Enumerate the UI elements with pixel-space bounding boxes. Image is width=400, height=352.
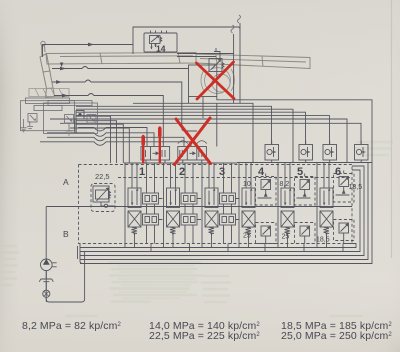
wire: [47, 137, 184, 146]
svg-text:2: 2: [179, 166, 185, 178]
pilot supply unit box: [144, 33, 177, 52]
red X over pilot valve 3: [175, 118, 211, 165]
gauge box: [75, 111, 84, 134]
wire: [70, 128, 129, 163]
wire: [40, 142, 191, 147]
svg-text:8,2 MPa = 82 kp/cm2: 8,2 MPa = 82 kp/cm2: [22, 320, 121, 332]
relief valve 22,5: [85, 184, 116, 212]
pilot valve box above section 3 (crossed): [178, 141, 207, 163]
wire bank top rail: [124, 162, 372, 165]
svg-text:25,0 MPa = 250 kp/cm2: 25,0 MPa = 250 kp/cm2: [281, 330, 392, 342]
wire arrow down: [60, 63, 64, 68]
wire top-left feed: [133, 27, 240, 103]
wire motor risers: [234, 23, 240, 103]
section 4 spring: [246, 227, 252, 234]
svg-text:B: B: [63, 229, 69, 239]
wire: [76, 121, 117, 163]
valve section 6 spool: [320, 184, 333, 228]
section 5 spring: [285, 227, 291, 234]
pressure legend: [22, 320, 392, 342]
section 3 check valves: [220, 163, 240, 244]
section 2 spring: [170, 227, 176, 234]
pictorial piston rod over blocks: [29, 89, 69, 97]
pilot valve box above section 2: [141, 147, 170, 164]
wire inner box to motor: [177, 54, 234, 57]
section 6 pilot relief bottom: [334, 220, 355, 241]
wire motor drop: [189, 97, 217, 147]
svg-text:4: 4: [258, 166, 265, 178]
wire: [60, 123, 361, 144]
pump flow triangle: [43, 259, 50, 265]
wire left-block outputs with hops: [52, 67, 189, 69]
check valve at x=265: [265, 145, 279, 161]
wire outer return: [80, 97, 372, 264]
svg-text:25: 25: [282, 234, 290, 241]
wire pump feed: [46, 207, 78, 260]
bank bus line: [80, 247, 337, 249]
section 6 pilot relief top: [334, 174, 355, 203]
svg-text:18,5: 18,5: [316, 237, 330, 244]
svg-text:10: 10: [243, 181, 251, 188]
section 3 spring: [209, 227, 215, 234]
suction strainer: [39, 271, 53, 282]
wire: [43, 45, 134, 58]
svg-text:5: 5: [297, 166, 303, 178]
motor control valve: [209, 48, 224, 72]
section small labels: [243, 181, 362, 244]
pictorial tilt cylinder: [40, 41, 55, 97]
motor block rect: [189, 65, 217, 97]
valve section 5 spool: [281, 184, 294, 228]
svg-text:22,5 MPa = 225 kp/cm2: 22,5 MPa = 225 kp/cm2: [149, 330, 260, 342]
page edge line: [391, 0, 393, 258]
relief valve 14: [150, 31, 167, 50]
wire: [76, 109, 293, 162]
valve section 2 spool: [167, 184, 180, 228]
cylinder block assembly left: [21, 98, 75, 132]
wire: [76, 124, 123, 163]
section numbers: [139, 166, 341, 178]
port arrows under valve 14: [150, 45, 156, 50]
red mark 2: [159, 128, 161, 163]
wire right inner returns: [80, 163, 368, 260]
valve section 1 spool: [128, 184, 141, 228]
svg-text:22,5: 22,5: [95, 172, 110, 181]
wire arrow: [88, 43, 94, 47]
section 4 port wires: [239, 163, 251, 248]
wire: [76, 116, 330, 145]
check valve at x=323: [323, 145, 337, 161]
section 1 check valves: [143, 163, 163, 244]
svg-text:25: 25: [243, 233, 251, 240]
hose squiggles: [231, 15, 241, 33]
pump P: [41, 259, 57, 271]
valve section 4 spool: [242, 184, 255, 228]
pictorial machine boom bars: [46, 53, 310, 69]
valve section 3 spool: [205, 184, 218, 228]
wire: [76, 112, 306, 144]
svg-text:3: 3: [219, 166, 225, 178]
valve bank dashed enclosure: [79, 165, 353, 244]
wire: [54, 94, 163, 147]
section 3 port wires: [202, 163, 214, 248]
section 5 pilot relief bottom: [295, 223, 316, 244]
bleed-through text from reverse page: [1, 142, 392, 316]
section 6 port wires: [317, 163, 329, 248]
wire: [50, 119, 347, 163]
wire P gallery: [79, 206, 353, 208]
check valve at x=299: [299, 145, 313, 161]
wire: [76, 106, 272, 144]
check valve at x=354.5: [355, 145, 369, 161]
section 1 spring: [132, 227, 138, 234]
red mark 1: [142, 136, 144, 163]
section 2 check valves: [181, 163, 201, 244]
cylinder block assembly right: [44, 101, 98, 136]
red X over motor: [197, 62, 235, 99]
pictorial motor housing: [201, 68, 235, 94]
wire: [337, 244, 356, 248]
wire: [80, 170, 360, 252]
svg-text:8,2: 8,2: [280, 181, 290, 188]
bank inner dashed top: [118, 177, 352, 179]
wire hoses to pilot boxes: [78, 128, 147, 147]
filter circle: [43, 282, 50, 302]
wire left bus connector: [78, 244, 83, 264]
svg-text:1: 1: [139, 166, 145, 178]
section 4 pilot relief top: [256, 177, 277, 206]
svg-text:18,5: 18,5: [349, 184, 363, 191]
section 4 pilot relief bottom: [256, 223, 277, 244]
wire: [47, 133, 154, 147]
svg-text:14: 14: [156, 44, 166, 54]
section 1 port wires: [125, 163, 137, 248]
wire left drops to bank: [76, 116, 111, 163]
section 5 pilot relief top: [295, 177, 316, 206]
svg-text:6: 6: [335, 166, 341, 178]
cascade wires to right side: [133, 103, 253, 162]
section 6 spring: [324, 227, 330, 234]
section 2 port wires: [164, 163, 176, 248]
svg-text:A: A: [63, 177, 69, 187]
wire pump return loop: [46, 252, 84, 303]
wire: [80, 166, 364, 256]
section 5 port wires: [278, 163, 290, 248]
wire: [52, 80, 197, 131]
